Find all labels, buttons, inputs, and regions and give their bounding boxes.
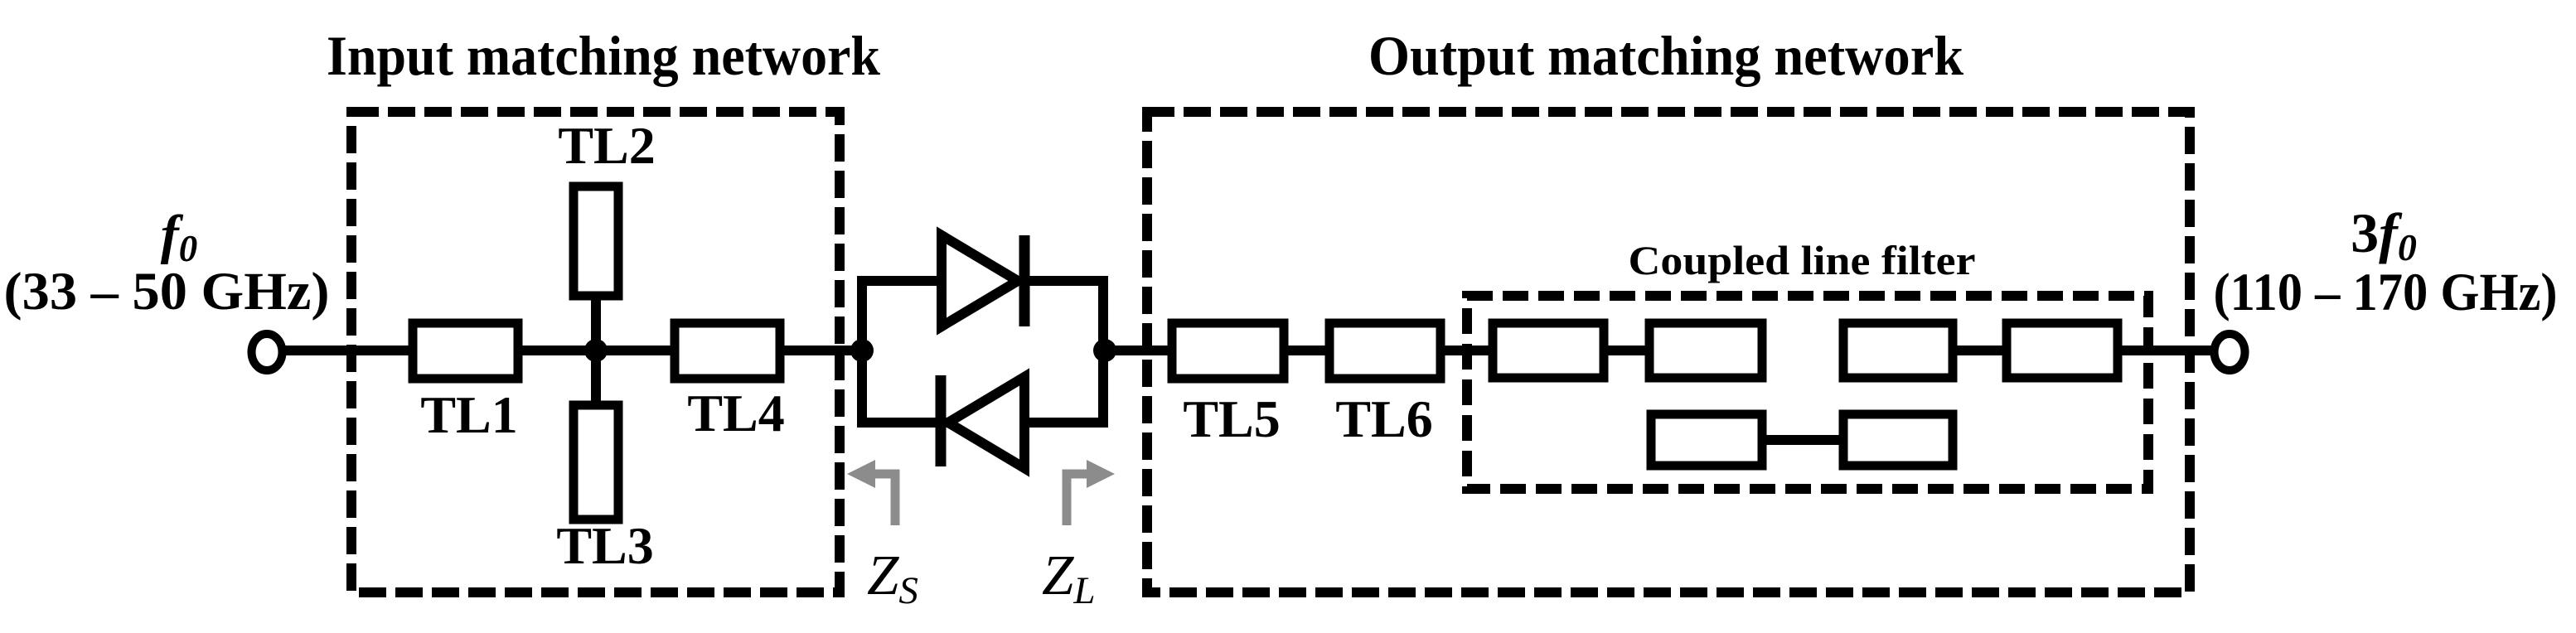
node ZL junction dot: [1093, 339, 1116, 362]
transmission line TL1: [413, 323, 518, 379]
transmission line TL5: [1172, 323, 1284, 379]
diode pair loop: top branch: [857, 276, 1108, 286]
svg-text:TL6: TL6: [1335, 389, 1432, 448]
node ZS junction dot: [850, 339, 874, 362]
transmission line TL6: [1329, 323, 1441, 379]
transmission line TL4: [675, 323, 780, 379]
wire: F4 to output terminal: [2118, 345, 2215, 355]
transmission line TL3 (shunt stub down): [574, 405, 618, 519]
svg-text:TL5: TL5: [1183, 389, 1280, 448]
coupled line section rect B1 (lower row): [1651, 414, 1762, 466]
diode D2 (bottom, pointing left): [948, 377, 1024, 468]
ZS gray arrow: [847, 460, 895, 525]
stub wire to TL3: [591, 350, 601, 405]
coupled line section rect F3: [1843, 323, 1953, 378]
input matching network dashed box: [351, 112, 840, 592]
wire: node ZL to TL5: [1103, 345, 1172, 355]
svg-text:Output matching network: Output matching network: [1368, 24, 1963, 87]
ZL gray arrow: [1067, 460, 1115, 525]
svg-text:Input matching network: Input matching network: [327, 24, 880, 87]
stub wire to TL2: [591, 296, 601, 350]
svg-text:TL3: TL3: [556, 516, 653, 575]
svg-text:TL4: TL4: [687, 384, 784, 442]
svg-text:(33 – 50 GHz): (33 – 50 GHz): [4, 262, 330, 321]
diode pair loop: left branch: [857, 281, 867, 423]
output port terminal: [2215, 334, 2245, 370]
svg-text:Coupled line filter: Coupled line filter: [1629, 237, 1976, 283]
diode D1 (top, pointing right): [942, 235, 1018, 326]
diode pair loop: right branch: [1098, 281, 1108, 423]
diode D2 cathode bar: [936, 375, 947, 466]
diode D1 cathode bar: [1019, 235, 1030, 326]
diode pair loop: bottom branch: [857, 418, 1108, 428]
coupled line section rect F1: [1493, 323, 1604, 378]
output matching network dashed box: [1147, 112, 2190, 592]
coupled line section rect B2 (lower row): [1843, 414, 1953, 466]
wire: TL4 to node ZS: [780, 345, 862, 355]
coupled line filter dashed box: [1467, 296, 2148, 489]
svg-text:TL2: TL2: [558, 116, 655, 175]
transmission line TL2 (shunt stub up): [574, 186, 618, 296]
wire: F1 to F2: [1604, 345, 1649, 355]
input port terminal: [252, 334, 283, 370]
wire: TL5 to TL6: [1284, 345, 1329, 355]
wire: B1 to B2: [1762, 435, 1843, 445]
wire: TL1 to node A: [518, 345, 675, 355]
node A junction dot: [584, 339, 608, 362]
coupled line section rect F4: [2007, 323, 2118, 378]
svg-text:TL1: TL1: [420, 385, 517, 444]
svg-text:(110 – 170 GHz): (110 – 170 GHz): [2214, 263, 2558, 322]
wire: F3 to F4: [1953, 345, 2007, 355]
coupled line section rect F2: [1649, 323, 1762, 378]
wire: input terminal to TL1: [282, 345, 413, 355]
wire: TL6 to coupled line filter: [1441, 345, 1493, 355]
